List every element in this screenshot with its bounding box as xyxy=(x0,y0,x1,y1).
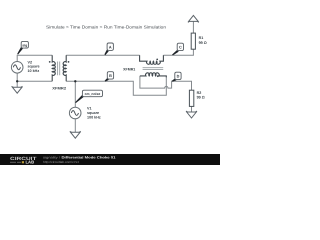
footer bar xyxy=(0,154,220,165)
voltage source V1 xyxy=(69,107,81,119)
svg-text:XFMR1: XFMR1 xyxy=(123,68,135,72)
net flag cm_noise xyxy=(75,90,102,103)
net flag A xyxy=(104,43,113,55)
net flag B xyxy=(105,72,114,82)
svg-text:A: A xyxy=(109,46,112,50)
wire: V2 top to XFMR2 primary top xyxy=(17,55,52,61)
wire: R1 top to flipped ground xyxy=(192,21,194,33)
V2 value label xyxy=(28,60,40,73)
svg-text:C: C xyxy=(179,46,182,50)
net flag D xyxy=(172,72,181,82)
XFMR1 polarity dot bottom xyxy=(157,75,159,77)
wire: node D net (XFMR1 bottom winding left, hop over, up to D, to R2) xyxy=(140,76,192,90)
svg-text:R2: R2 xyxy=(197,91,202,95)
R1 value label xyxy=(199,36,207,45)
svg-text:R1: R1 xyxy=(199,36,204,40)
XFMR2 primary winding (left) xyxy=(52,55,55,81)
XFMR2 secondary winding (right) xyxy=(63,55,66,81)
svg-text:XFMR2: XFMR2 xyxy=(52,86,66,90)
XFMR2 polarity dot right xyxy=(68,61,70,63)
voltage source V2 xyxy=(11,62,23,74)
XFMR1 core lines xyxy=(143,68,164,70)
svg-text:99 Ω: 99 Ω xyxy=(199,41,207,45)
V1 value label xyxy=(87,107,101,120)
svg-text:cm_noise: cm_noise xyxy=(85,92,101,96)
ground (below R2) xyxy=(186,111,197,118)
flipped ground (above R1) xyxy=(188,15,199,22)
wire: node C net (XFMR1 top winding right to R1 bottom) xyxy=(163,49,193,55)
svg-text:B: B xyxy=(109,74,112,78)
CircuitLab logo xyxy=(10,156,37,165)
ground (below V1) xyxy=(70,131,81,138)
XFMR2 polarity dot left xyxy=(49,61,51,63)
XFMR1 bottom winding xyxy=(140,73,166,78)
svg-text:LAB: LAB xyxy=(26,160,35,165)
svg-text:100 kHz: 100 kHz xyxy=(87,115,101,119)
svg-text:sig: sig xyxy=(22,43,27,47)
wire: V1 bottom to ground xyxy=(74,119,76,132)
ground (below V2) xyxy=(12,86,23,93)
XFMR1 top winding xyxy=(140,55,164,64)
junction dot: cm_noise riser on B rail xyxy=(74,80,76,82)
svg-text:10 kHz: 10 kHz xyxy=(28,69,40,73)
resistor R2 xyxy=(189,90,193,106)
wire: R2 bottom to ground xyxy=(191,106,193,112)
wire: node B net (XFMR2 secondary bottom, around to XFMR1 bottom winding right) xyxy=(66,77,166,95)
svg-text:99 Ω: 99 Ω xyxy=(197,95,205,99)
net flag sig xyxy=(17,41,28,54)
junction dot: V2 bottom rail xyxy=(16,80,18,82)
svg-text:D: D xyxy=(177,75,180,79)
svg-text:Simulate > Time Domain > Run T: Simulate > Time Domain > Run Time-Domain… xyxy=(46,24,167,29)
wire: primary bottom rail V2 to XFMR2 xyxy=(17,80,52,82)
wire: node A net (XFMR2 secondary top to XFMR1 top winding left) xyxy=(66,54,139,56)
net flag C xyxy=(172,43,184,55)
wire: V2 bottom to ground xyxy=(16,73,18,87)
resistor R1 xyxy=(191,33,195,49)
svg-text:http://circuitlab.com/c7x4: http://circuitlab.com/c7x4 xyxy=(43,160,79,164)
R2 value label xyxy=(197,91,205,100)
XFMR2 core lines xyxy=(58,62,60,76)
wire: cm_noise riser from B rail to V1 xyxy=(74,81,76,107)
XFMR1 polarity dot top xyxy=(156,59,158,61)
